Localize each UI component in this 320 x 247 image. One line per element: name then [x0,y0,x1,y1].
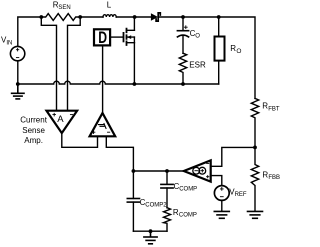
label Current Sense Amp. [20,115,47,145]
wire switch node to diode [135,16,151,18]
wire VREF- to ground [221,200,223,211]
wire output node to RO node [183,16,219,18]
wire L to switch node [116,16,134,18]
ground rail wire (VIN- to RO bottom, hops over sense and drive lines) [18,81,219,84]
wire diode to output node [158,16,183,18]
svg-text:ESR: ESR [189,61,206,70]
node junction compensation ground [149,229,153,233]
driver block D (U1) [94,29,110,45]
wire comparator - input to compensation node [106,136,133,171]
wire D output to MOSFET gate [111,36,124,38]
label CCOMP [174,182,198,192]
ground (below RFBB) [248,211,263,218]
capacitor CCOMP [161,171,173,208]
svg-text:R: R [230,44,236,53]
capacitor CCOMP2 [127,171,139,231]
node at RO top [217,15,221,19]
svg-text:FBT: FBT [268,106,280,112]
label CO [190,29,201,40]
voltage source VIN [10,46,24,60]
svg-text:COMP2: COMP2 [145,202,167,208]
ground (below VIN) [12,84,24,99]
svg-text:Current: Current [20,115,47,124]
label A [57,114,64,125]
label D [98,28,107,47]
wire output rail to right side down to RFBT [219,17,255,98]
resistor RFBT [251,98,258,147]
ground (below VREF) [214,211,229,218]
svg-text:O: O [236,48,241,55]
wire sense tap right (to amp - input) [68,17,81,111]
ground (compensation network) [144,231,157,244]
node feedback node FB [253,146,257,150]
label RFBT [262,102,280,113]
label RFBB [262,170,280,181]
node output node at CO [181,15,185,19]
svg-text:COMP: COMP [179,213,197,219]
inductor L [103,15,116,17]
label RO [230,44,241,55]
label L [107,1,112,10]
node junction compensation / error amp output [132,169,136,173]
op-amp U2 (PWM comparator) [90,113,116,136]
op-amp A (current sense amplifier) [47,111,78,133]
diode D1 (Schottky) [151,13,160,21]
node switch node (drain / diode anode) [133,15,137,19]
wire D input from PWM comparator [102,46,104,113]
svg-text:COMP: COMP [179,187,197,193]
op-amp U3 (gm error amplifier) [184,160,211,181]
svg-text:IN: IN [6,40,12,46]
label VIN [1,36,12,47]
resistor RSEN [41,14,80,21]
wire A output to PWM comparator + input [62,133,98,147]
resistor RCOMP [164,208,171,232]
node junction CCOMP tap [165,169,169,173]
resistor RFBB [251,147,258,211]
svg-text:Amp.: Amp. [24,136,43,145]
wire error amp + input to VREF [211,176,222,186]
node junction VIN- / ground rail [16,82,20,86]
label VREF [229,188,247,199]
label CCOMP2 [140,198,168,209]
resistor RO (load box) [215,17,225,84]
transistor Q1 (NMOS) [124,17,135,84]
svg-text:REF: REF [235,192,247,198]
node junction MOSFET source / ground rail [133,82,137,86]
label RSEN [53,1,71,12]
label ESR [189,61,206,70]
svg-text:O: O [195,33,200,39]
wire error amp - input to feedback node [211,147,255,166]
svg-text:FBB: FBB [268,175,280,181]
svg-text:Sense: Sense [22,126,45,135]
svg-text:A: A [57,114,64,125]
node junction ESR / ground rail [181,82,185,86]
wire VIN+ to top rail [18,17,42,46]
node RSEN left [39,15,43,19]
svg-text:SEN: SEN [58,5,70,11]
capacitor CO (polarized) [177,17,188,53]
voltage source VREF [214,186,229,201]
wire VIN- down to ground rail [17,61,19,84]
wire sense tap left (to amp + input) [41,17,56,111]
svg-text:L: L [107,1,112,10]
label RCOMP [173,208,197,219]
wire compensation bottom [133,230,167,232]
wire RSEN to L [80,16,103,18]
svg-text:D: D [98,28,107,47]
node RSEN right [78,15,82,19]
wire error amp output line [133,170,183,172]
resistor ESR [179,53,186,84]
